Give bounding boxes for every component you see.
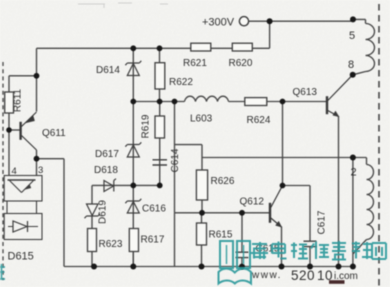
- resistor R620: [232, 43, 252, 51]
- diode C616 zener: [125, 199, 141, 213]
- watermark underline bar: [329, 280, 345, 284]
- wire R615 column: [201, 213, 203, 267]
- resistor R621: [191, 43, 211, 51]
- watermark partial glyph bottom left: [0, 264, 5, 279]
- wire D618 rail y185: [92, 184, 160, 186]
- wire R619 C614 column: [159, 102, 161, 186]
- wire winding5 top lead: [353, 19, 366, 23]
- svg-text:www.: www.: [251, 270, 282, 281]
- wire winding5 bottom lead: [353, 72, 366, 75]
- wire base rail y212: [175, 212, 270, 214]
- resistor R622: [155, 63, 165, 89]
- wire Q613 emitter drop: [338, 116, 340, 267]
- dashed border left: [2, 62, 4, 280]
- resistor R626: [196, 170, 207, 200]
- wire mid rail R624 to Q613 base: [229, 101, 328, 103]
- wire R611 top feed: [9, 75, 37, 77]
- wire bottom ground bus: [64, 266, 353, 268]
- diode D617 zener: [125, 142, 141, 157]
- wire winding2 top lead: [353, 158, 367, 165]
- faint smudges top: [78, 3, 168, 8]
- wire node to C617: [283, 185, 311, 187]
- wire left riser to bottom bus: [63, 159, 65, 267]
- wire column x174 down: [174, 102, 176, 213]
- diode D618: [104, 179, 116, 192]
- wire main upper rail y48: [37, 47, 270, 49]
- watermark url www: [251, 268, 358, 283]
- wire collector node to right: [37, 158, 65, 160]
- resistor R615: [197, 223, 207, 245]
- transistor Q611: [21, 112, 37, 150]
- terminal +300V circle: [239, 17, 248, 26]
- wire C617 column: [309, 186, 311, 267]
- wire Q612 emitter drop: [281, 227, 283, 267]
- capacitor C614: [153, 160, 168, 165]
- wire R611 column and pin4: [8, 76, 10, 176]
- wire long feedback line y157: [202, 157, 353, 159]
- capacitor C617: [304, 241, 317, 246]
- resistor R623: [88, 229, 97, 252]
- wire R617 column gap fill: [132, 252, 134, 267]
- optocoupler D615 box LED: [4, 214, 42, 240]
- dashed border right (transformer core): [378, 4, 380, 287]
- wire Q611 base: [9, 129, 20, 131]
- wire Q611 collector down / pin3: [36, 150, 38, 176]
- resistor R611: [5, 92, 14, 113]
- wire left drop to Q611 emitter: [36, 48, 38, 111]
- wire rail drop to R620: [269, 21, 271, 48]
- watermark chinese characters: [251, 241, 386, 260]
- optocoupler D615 box photo-transistor: [4, 176, 42, 240]
- watermark book icon: [219, 241, 252, 284]
- wire link to R626 top node: [175, 145, 203, 170]
- winding 5-8 coil: [366, 24, 375, 72]
- wire center column D614/D617/C616/R617: [132, 48, 134, 266]
- wire R622 column: [159, 48, 161, 101]
- wire C615 column: [241, 213, 243, 267]
- resistor R619: [155, 116, 165, 138]
- wire x174 riser to bus: [174, 213, 176, 267]
- inductor L603: [185, 96, 229, 101]
- resistor R617: [129, 229, 138, 252]
- transistor Q612: [270, 186, 283, 228]
- wire mid rail y101: [133, 101, 184, 103]
- capacitor C615: [236, 252, 249, 257]
- transistor Q613: [327, 75, 353, 117]
- svg-text:520: 520: [291, 268, 315, 283]
- diode D614 zener: [125, 61, 141, 76]
- wire winding2 bottom lead: [353, 158, 367, 267]
- winding 2 coil: [367, 165, 374, 240]
- wire Q612 collector riser: [282, 102, 284, 186]
- wire R626 bottom stub: [201, 200, 203, 213]
- wire D619 R623 column: [91, 185, 93, 266]
- wire +300V rail top: [249, 20, 353, 22]
- diode D619 zener: [85, 204, 101, 218]
- resistor R624: [245, 98, 267, 106]
